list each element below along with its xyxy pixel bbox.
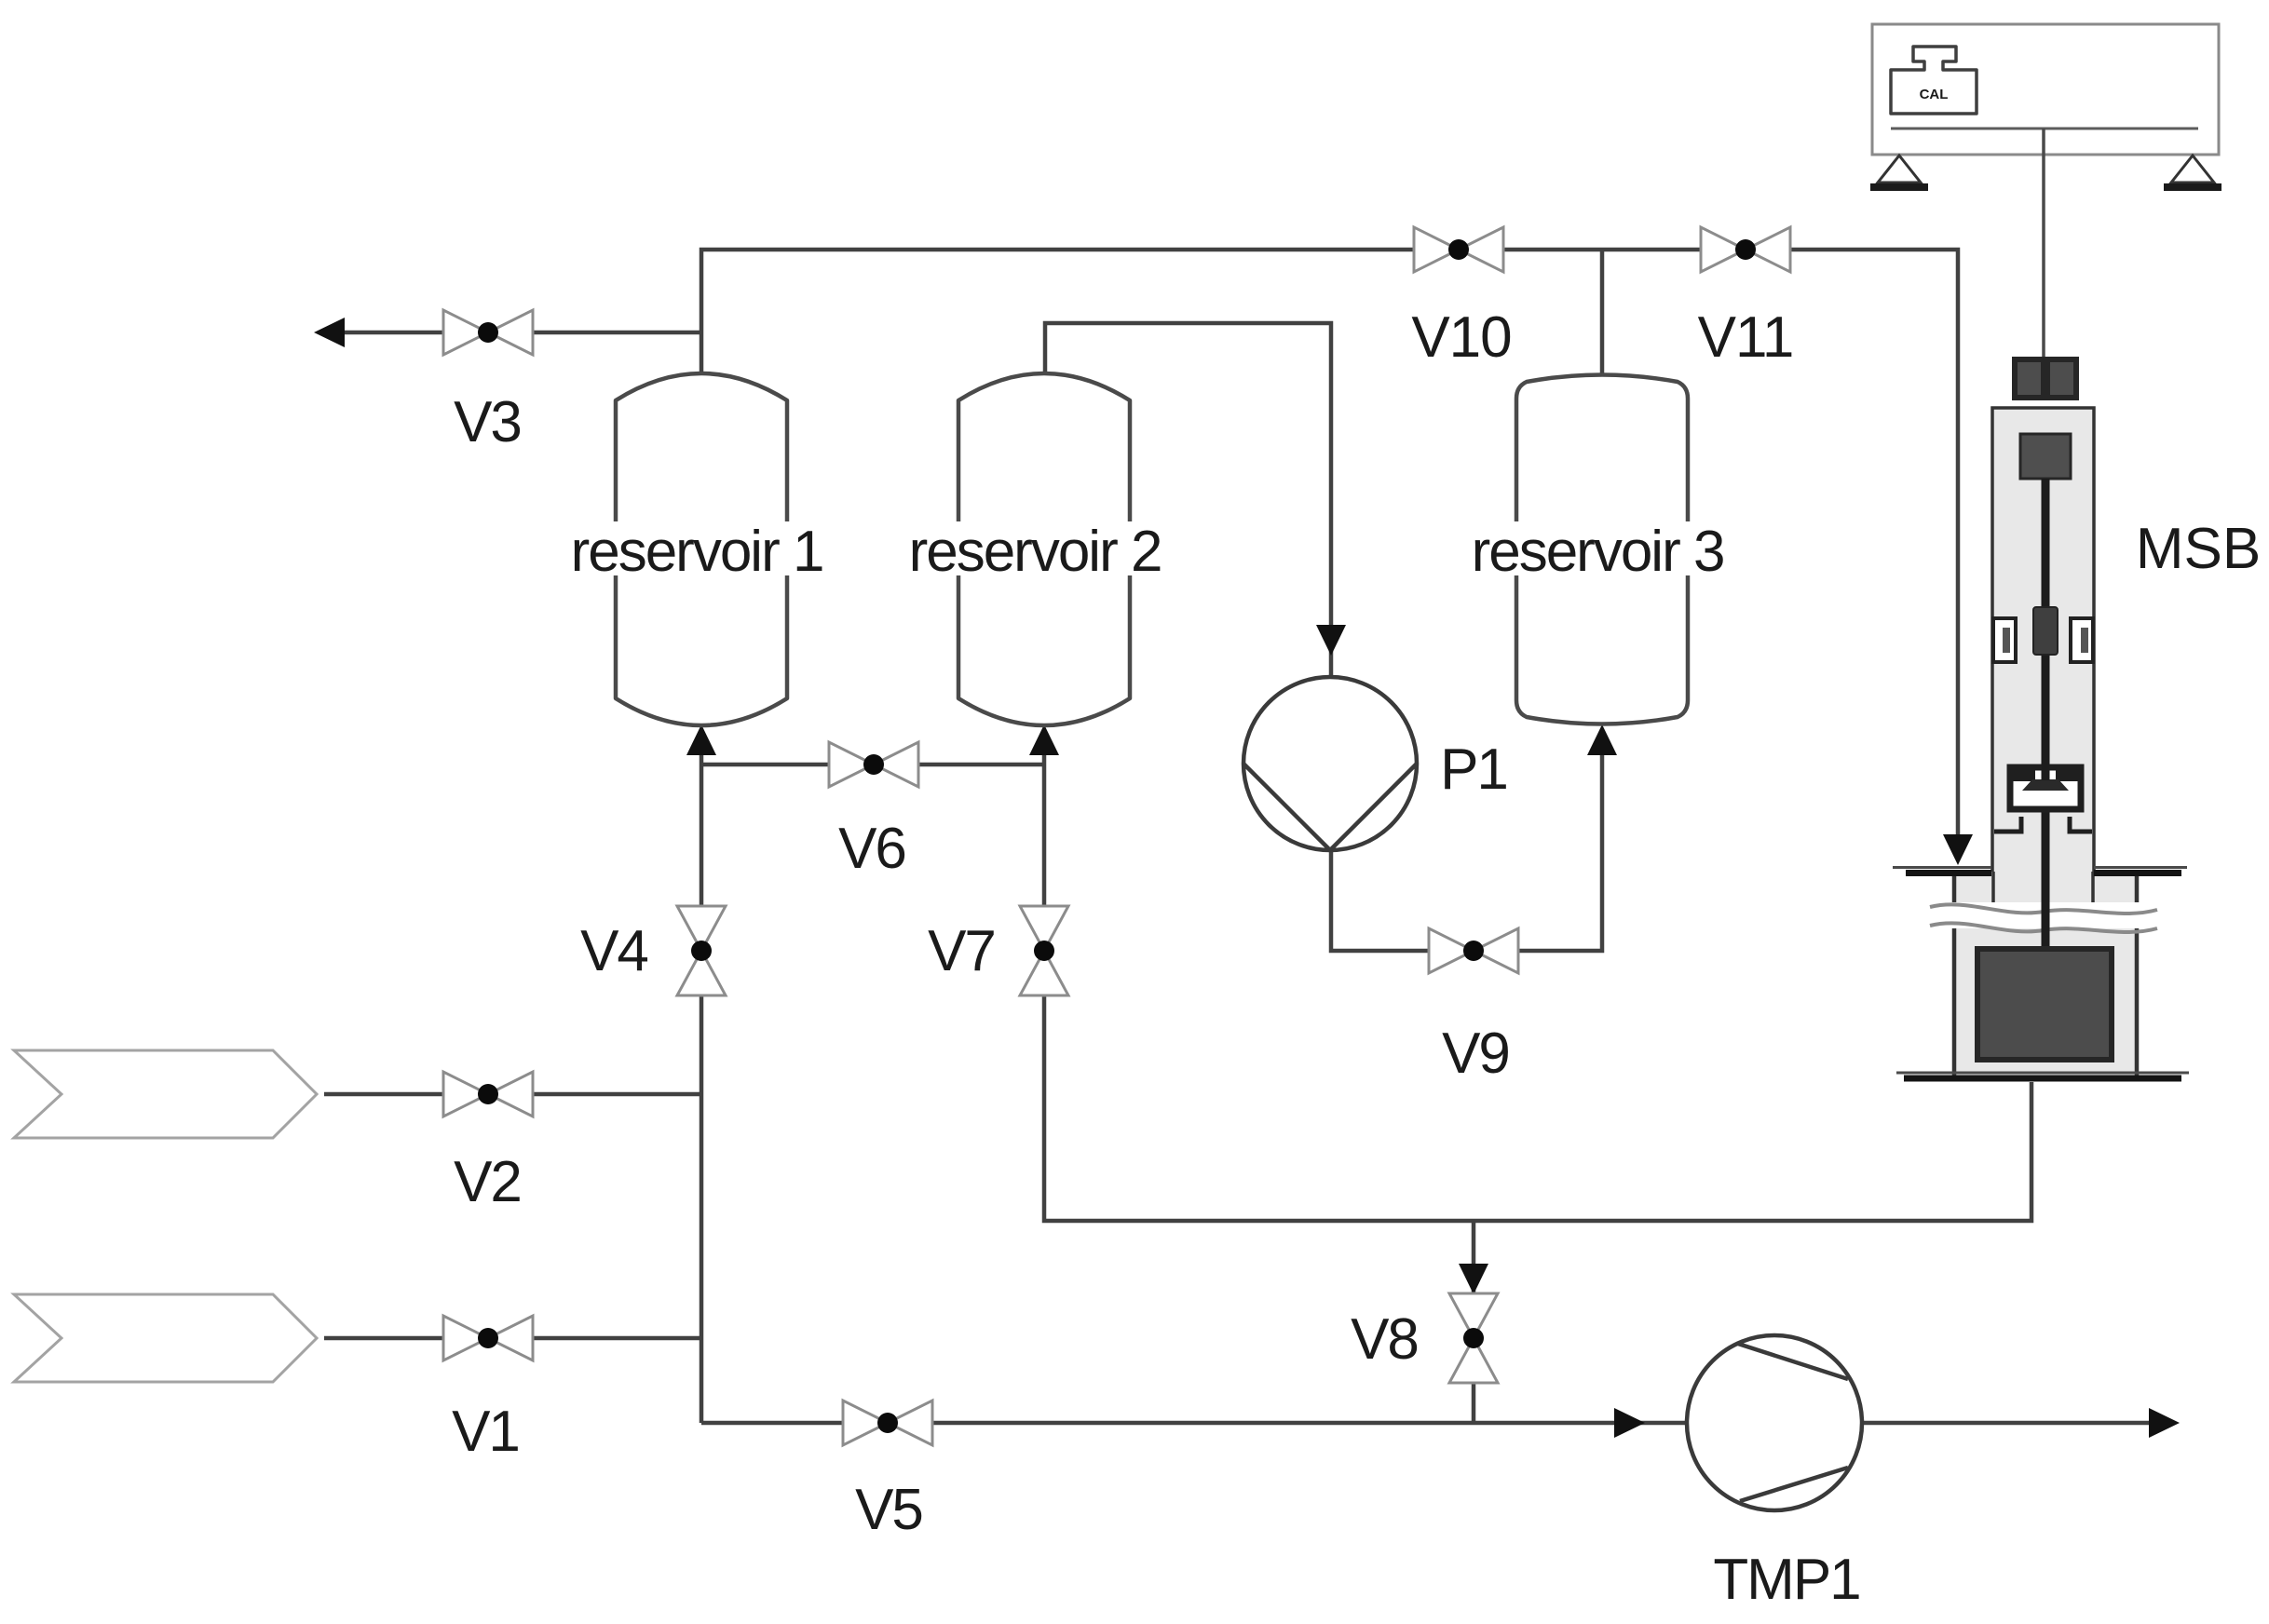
svg-text:reservoir 2: reservoir 2 — [909, 520, 1162, 584]
wire reservoir1 bottom main riser down to vacuum line — [700, 736, 704, 1423]
svg-text:V10: V10 — [1411, 305, 1511, 370]
MSB pressure vessel — [1893, 868, 2189, 1079]
MSB measuring-load decoupling cage — [2010, 767, 2081, 809]
balance left foot — [1878, 156, 1921, 183]
MSB suspension rod — [2042, 479, 2050, 950]
MSB permanent magnet core — [2033, 607, 2058, 655]
wire V3 vent line — [324, 331, 701, 335]
svg-text:V2: V2 — [454, 1150, 521, 1214]
calibration weight icon — [1891, 47, 1977, 114]
balance unit CAL box — [1870, 24, 2221, 358]
wire V2 inlet line — [324, 1092, 701, 1097]
balance right foot — [2171, 156, 2214, 183]
svg-text:V6: V6 — [838, 817, 905, 881]
svg-text:V3: V3 — [454, 390, 521, 454]
valve V11 — [1701, 227, 1790, 272]
vessel bottom flange — [1896, 1072, 2189, 1075]
svg-text:reservoir 1: reservoir 1 — [571, 520, 823, 584]
svg-text:TMP1: TMP1 — [1713, 1548, 1859, 1612]
wire reservoir3 top branch — [1600, 250, 1605, 375]
PIPES-LAYER — [324, 250, 2170, 1423]
reservoir 2 vessel — [958, 373, 1130, 725]
MSB right position sensor — [2071, 618, 2093, 662]
svg-text:V4: V4 — [580, 919, 647, 983]
wire reservoir2 to P1 loop — [1045, 323, 1331, 677]
valve V9 — [1429, 928, 1518, 973]
node flow arrow above V8 — [1459, 1264, 1488, 1294]
valve V10 — [1414, 227, 1503, 272]
valve V6 — [829, 742, 918, 787]
wire V8 branch — [1472, 1221, 1476, 1423]
valve V2 — [443, 1072, 533, 1116]
svg-text:V5: V5 — [855, 1478, 922, 1542]
node flow arrow at V3 vent outlet — [314, 318, 345, 347]
label reservoir 1 — [564, 520, 831, 584]
node flow arrow into reservoir 1 — [686, 724, 716, 755]
node supply arrow banner at V1 inlet — [14, 1294, 317, 1382]
valve V4 — [677, 906, 726, 995]
node flow arrow onto MSB flange — [1943, 834, 1973, 865]
valve V1 — [443, 1316, 533, 1360]
wire V6 crossover line — [701, 763, 1044, 767]
svg-text:V11: V11 — [1698, 305, 1794, 370]
pump P1 — [1243, 677, 1417, 850]
reservoir 1 vessel — [616, 373, 787, 725]
MSB housing tube — [1992, 408, 2094, 872]
vessel break wavy band — [1928, 902, 2159, 928]
svg-text:P1: P1 — [1440, 738, 1507, 802]
svg-text:V8: V8 — [1351, 1307, 1418, 1372]
MSB magnetic suspension balance assembly — [1992, 357, 2094, 950]
svg-text:V9: V9 — [1442, 1022, 1509, 1086]
wire reservoir2 bottom through V7 down and right to MSB vessel — [1044, 736, 2031, 1221]
valve V3 — [443, 310, 533, 355]
MSB coupling cap — [2012, 357, 2079, 400]
pump TMP1 — [1687, 1335, 1862, 1510]
valve V8 — [1449, 1293, 1498, 1383]
label reservoir 3 — [1465, 520, 1732, 584]
svg-text:reservoir 3: reservoir 3 — [1472, 520, 1724, 584]
svg-text:V1: V1 — [452, 1400, 519, 1464]
reservoir 3 vessel — [1516, 375, 1688, 724]
valve V5 — [843, 1401, 932, 1445]
MSB electromagnet — [2020, 434, 2071, 479]
wire V1 inlet line — [324, 1336, 701, 1341]
wire P1 outlet to V9 to reservoir3 bottom — [1331, 736, 1602, 951]
node flow arrow into reservoir 2 — [1029, 724, 1059, 755]
node flow arrow TMP1 exhaust — [2149, 1408, 2180, 1438]
node flow arrow into TMP1 — [1614, 1408, 1645, 1438]
svg-text:MSB: MSB — [2136, 517, 2261, 581]
MSB left position sensor — [1993, 618, 2016, 662]
wire vacuum line V5 to TMP1 to exhaust — [701, 1421, 1686, 1426]
vessel top flange — [1893, 866, 2187, 869]
balance beam line — [1891, 128, 2198, 130]
svg-text:V7: V7 — [928, 919, 995, 983]
valve V7 — [1020, 906, 1068, 995]
node flow arrow into P1 pump — [1316, 625, 1346, 656]
hanger wire from balance — [2042, 129, 2045, 358]
sample sinker block — [1977, 949, 2112, 1060]
svg-text:CAL: CAL — [1920, 87, 1949, 102]
node supply arrow banner at V2 inlet — [14, 1050, 317, 1138]
MSB housing step details — [1994, 817, 2092, 832]
wire TMP1 outlet — [1862, 1421, 2170, 1426]
label reservoir 2 — [903, 520, 1169, 584]
node flow arrow into reservoir 3 — [1587, 724, 1617, 755]
wire top header pipe from reservoir1 riser to MSB drop — [701, 250, 1958, 852]
